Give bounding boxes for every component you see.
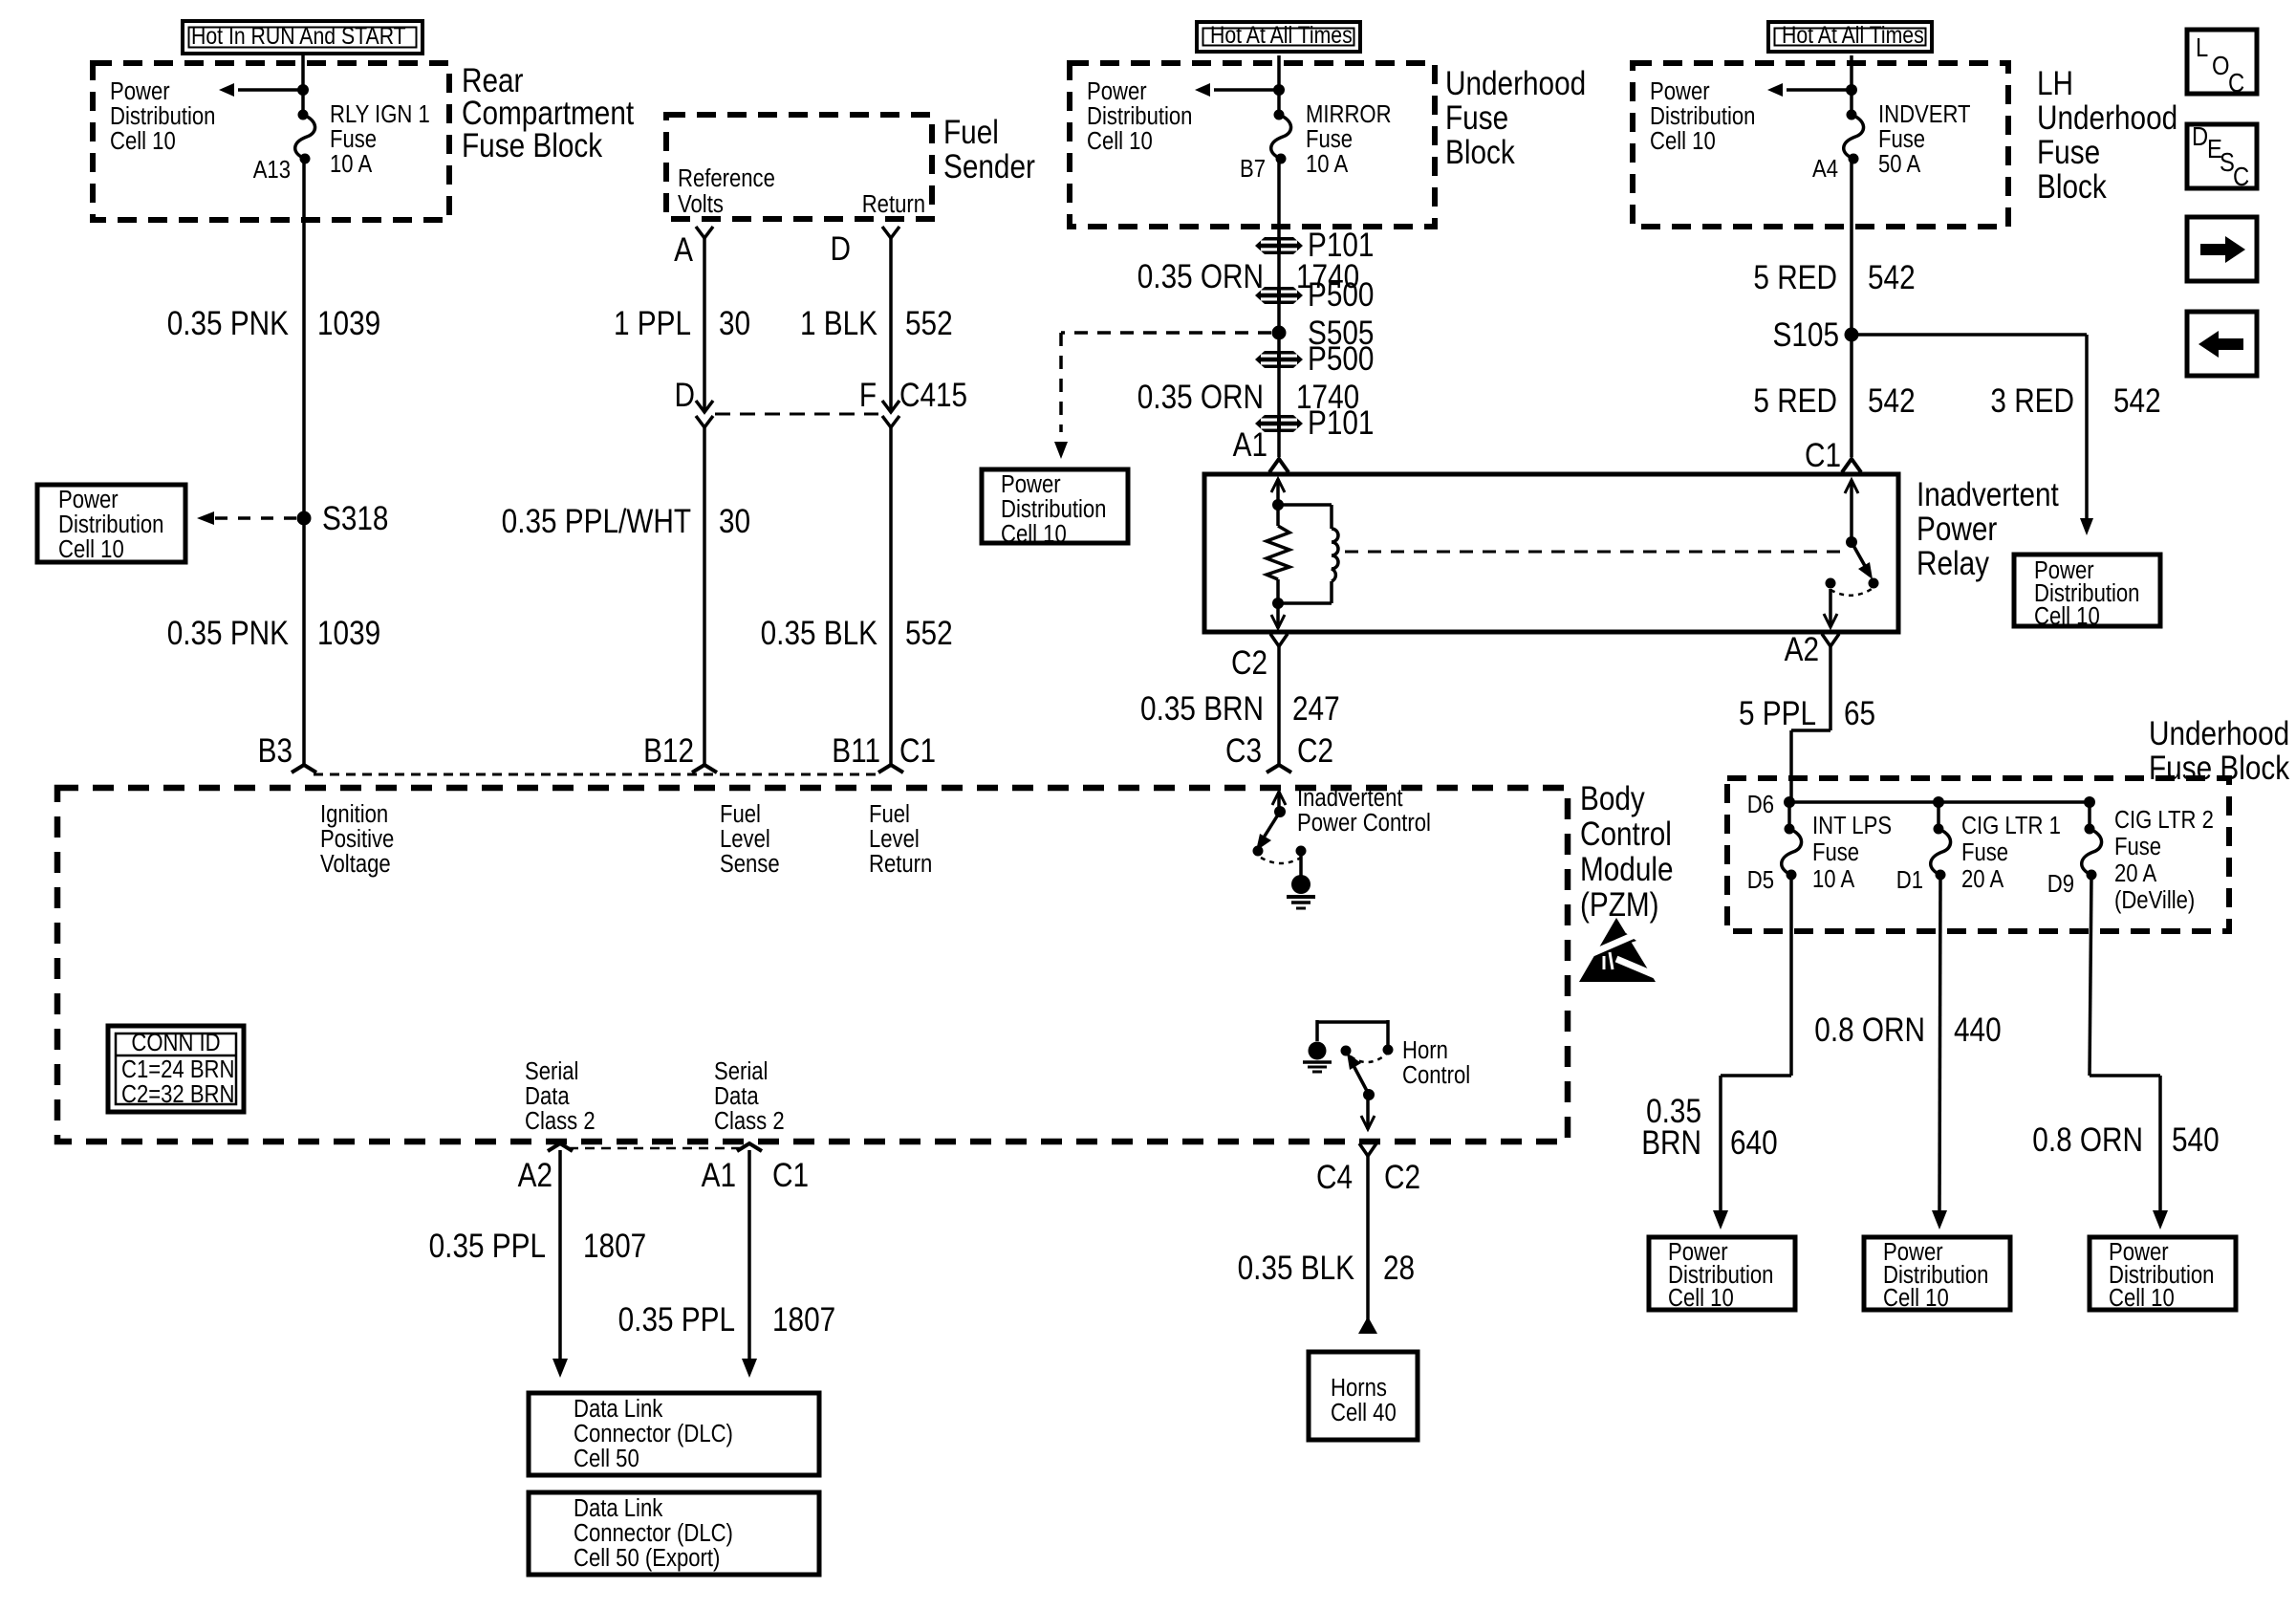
svg-text:B3: B3 — [258, 732, 292, 770]
header box Hot At All Times (underhood) — [1197, 22, 1360, 52]
svg-text:Cell 10: Cell 10 — [1650, 127, 1716, 155]
svg-text:C4: C4 — [1316, 1159, 1353, 1196]
inadvertent power control switch pivot node — [1274, 806, 1286, 817]
relay switch common up arrow — [1845, 480, 1858, 493]
svg-text:Power: Power — [1001, 470, 1061, 498]
svg-text:A: A — [674, 231, 693, 269]
wire 0.35 PPL 1807 (A2 to DLC) — [558, 1150, 562, 1360]
svg-text:Cell 40: Cell 40 — [1331, 1399, 1397, 1426]
svg-text:10 A: 10 A — [330, 150, 373, 178]
wire 0.35 PNK 1039 (A13 to B3) — [302, 159, 306, 766]
svg-text:Control: Control — [1580, 816, 1672, 853]
svg-text:O: O — [2212, 50, 2230, 80]
right arrow icon box — [2187, 217, 2257, 281]
svg-text:Power: Power — [110, 77, 170, 105]
svg-text:D5: D5 — [1747, 866, 1774, 894]
svg-text:P101: P101 — [1308, 404, 1374, 442]
svg-text:50 A: 50 A — [1878, 150, 1921, 178]
horn switch dashed arc — [1351, 1055, 1386, 1062]
svg-text:Sender: Sender — [943, 148, 1035, 185]
svg-text:Body: Body — [1580, 780, 1645, 817]
fuse INT LPS 10A — [1787, 802, 1791, 829]
svg-text:0.35 PPL: 0.35 PPL — [618, 1301, 735, 1338]
ground (horn control) — [1309, 1042, 1327, 1060]
svg-text:Cell 10: Cell 10 — [1087, 127, 1153, 155]
svg-text:Fuel: Fuel — [869, 800, 910, 828]
svg-text:Hot At All Times: Hot At All Times — [1782, 21, 1924, 48]
svg-text:C: C — [2233, 161, 2249, 191]
svg-text:0.35 BRN: 0.35 BRN — [1140, 690, 1264, 728]
svg-text:B7: B7 — [1240, 155, 1266, 183]
svg-text:3 RED: 3 RED — [1990, 382, 2074, 420]
pin C2 chevron below relay — [1270, 634, 1288, 646]
svg-text:552: 552 — [905, 305, 953, 342]
svg-text:0.35 BLK: 0.35 BLK — [761, 615, 878, 652]
svg-text:Control: Control — [1402, 1061, 1470, 1089]
switch dashed arc — [1261, 858, 1301, 863]
svg-text:Return: Return — [869, 850, 932, 878]
svg-text:Return: Return — [862, 190, 925, 218]
svg-text:P500: P500 — [1308, 276, 1374, 314]
dashed branch from S505 to Power Distribution — [1061, 331, 1271, 335]
svg-text:20 A: 20 A — [2114, 859, 2157, 887]
wire from Hot In RUN And START into fuse block — [301, 55, 305, 115]
svg-text:Power: Power — [1087, 77, 1147, 105]
svg-text:INT LPS: INT LPS — [1812, 812, 1892, 839]
junction node above MIRROR fuse — [1273, 84, 1285, 96]
thin dashed connector line A2-A1 — [569, 1147, 741, 1150]
svg-text:28: 28 — [1383, 1250, 1415, 1287]
CONN ID table box — [108, 1026, 244, 1112]
svg-text:BRN: BRN — [1641, 1124, 1701, 1162]
svg-text:Horns: Horns — [1331, 1374, 1387, 1402]
fuse INDVERT 50A — [1847, 110, 1857, 120]
svg-text:1807: 1807 — [583, 1228, 646, 1265]
svg-text:Hot At All Times: Hot At All Times — [1210, 21, 1353, 48]
wire 5 RED 542 (S105 to C1) — [1850, 335, 1853, 457]
svg-text:Class 2: Class 2 — [525, 1107, 596, 1135]
svg-text:640: 640 — [1730, 1124, 1778, 1162]
svg-text:Block: Block — [1445, 134, 1515, 171]
relay resistor — [1276, 505, 1280, 526]
svg-text:5 PPL: 5 PPL — [1739, 695, 1816, 732]
svg-text:Underhood: Underhood — [1445, 65, 1586, 102]
svg-text:D6: D6 — [1747, 791, 1774, 818]
wire 0.8 ORN 440 (D1 down) — [1939, 875, 1940, 1212]
dashed arrow from S318 to Power Distribution box — [214, 516, 296, 520]
svg-text:F: F — [859, 377, 877, 414]
arrow to Power Distribution (left) — [238, 88, 303, 92]
svg-text:D: D — [675, 377, 695, 414]
svg-text:0.35 PPL/WHT: 0.35 PPL/WHT — [502, 503, 691, 540]
solid box Data Link Connector (DLC) Cell 50 (Export) — [529, 1492, 819, 1575]
connector A1/C1 chevron (serial data) — [737, 1143, 762, 1151]
svg-text:Horn: Horn — [1402, 1036, 1448, 1064]
svg-text:C415: C415 — [899, 377, 967, 414]
svg-text:Data Link: Data Link — [574, 1494, 663, 1522]
svg-text:Reference: Reference — [678, 164, 775, 192]
wire 0.35 BRN 247 (C2 to C3) — [1277, 646, 1281, 765]
svg-text:Serial: Serial — [714, 1057, 768, 1085]
ground (inadvertent power control) — [1299, 851, 1303, 876]
svg-text:Fuse: Fuse — [1445, 99, 1508, 137]
svg-text:Voltage: Voltage — [320, 850, 391, 878]
fuse CIG LTR 1 20A — [1937, 802, 1940, 829]
wire 5 RED 542 (A4 to S105) — [1850, 159, 1853, 335]
solid box Power Distribution Cell 10 (right) — [2014, 555, 2160, 626]
relay coil-side down arrow — [1271, 615, 1285, 628]
node at CIG LTR 2 fuse top — [2084, 796, 2095, 808]
svg-text:C2: C2 — [1297, 732, 1333, 770]
svg-text:D: D — [2192, 120, 2208, 151]
svg-text:Underhood: Underhood — [2037, 99, 2177, 137]
svg-text:D: D — [831, 230, 851, 268]
svg-text:Cell 10: Cell 10 — [1668, 1284, 1734, 1312]
fuel sender dashed box — [666, 115, 932, 219]
svg-text:P500: P500 — [1308, 340, 1374, 378]
svg-text:Serial: Serial — [525, 1057, 578, 1085]
svg-text:Distribution: Distribution — [58, 511, 163, 538]
relay switch arm — [1852, 542, 1869, 573]
svg-text:440: 440 — [1954, 1012, 2002, 1049]
svg-text:A4: A4 — [1812, 155, 1838, 183]
connector A chevron at fuel sender — [696, 227, 713, 238]
inadvertent power control up arrow — [1272, 792, 1286, 805]
header box Hot In RUN And START — [183, 21, 422, 54]
connector A2 chevron (serial data) — [548, 1143, 573, 1151]
relay dashed actuating link — [1345, 551, 1840, 554]
svg-text:Cell 10: Cell 10 — [110, 127, 176, 155]
svg-text:552: 552 — [905, 615, 953, 652]
svg-text:D9: D9 — [2047, 870, 2074, 898]
underhood fuse block dashed box (lower) — [1727, 778, 2229, 931]
solid box Power Distribution Cell 10 (middle) — [982, 469, 1128, 543]
inline connector P500 (upper) — [1255, 287, 1303, 304]
svg-text:C1: C1 — [899, 732, 936, 770]
relay switch arm end node — [1869, 578, 1879, 589]
svg-text:LH: LH — [2037, 65, 2073, 102]
junction node above RLY IGN 1 fuse — [297, 84, 309, 96]
horn switch arm — [1350, 1058, 1367, 1091]
svg-text:Compartment: Compartment — [462, 95, 634, 132]
svg-text:Class 2: Class 2 — [714, 1107, 785, 1135]
header box Hot At All Times (LH underhood) — [1768, 22, 1932, 52]
horn output down arrow — [1361, 1116, 1375, 1129]
connector C4/C2 chevron below BCM — [1359, 1143, 1376, 1156]
svg-text:MIRROR: MIRROR — [1306, 100, 1392, 128]
svg-text:Cell 50 (Export): Cell 50 (Export) — [574, 1544, 720, 1572]
svg-text:Distribution: Distribution — [1650, 102, 1755, 130]
svg-text:Fuse: Fuse — [1812, 838, 1859, 866]
connector B11 chevron into BCM — [878, 765, 903, 772]
fuse feed bus — [1789, 800, 2090, 804]
wire from Hot At All Times into underhood fuse block — [1277, 55, 1281, 115]
svg-text:C2=32 BRN: C2=32 BRN — [121, 1080, 234, 1108]
svg-text:Module: Module — [1580, 851, 1674, 888]
svg-text:65: 65 — [1844, 695, 1875, 732]
svg-text:Fuse: Fuse — [1878, 125, 1925, 153]
DESC icon box — [2187, 124, 2257, 188]
svg-text:Fuse Block: Fuse Block — [2149, 750, 2290, 787]
svg-text:S105: S105 — [1773, 316, 1839, 354]
switch ground-side node — [1296, 846, 1307, 857]
svg-text:Power: Power — [1650, 77, 1710, 105]
svg-text:0.35 BLK: 0.35 BLK — [1238, 1250, 1355, 1287]
switch arm end node — [1253, 846, 1264, 857]
svg-text:Hot In RUN And START: Hot In RUN And START — [191, 22, 406, 49]
svg-text:A2: A2 — [518, 1157, 552, 1194]
svg-text:0.35 PPL: 0.35 PPL — [429, 1228, 546, 1265]
wire 0.35 ORN 1740 (B7 to A1) — [1277, 159, 1281, 457]
horn switch pivot node — [1363, 1089, 1375, 1100]
horn switch moving contact node — [1341, 1046, 1352, 1056]
svg-text:1 BLK: 1 BLK — [800, 305, 877, 342]
connector D chevron at fuel sender return — [882, 227, 899, 238]
wire 0.35 PPL 1807 (A1 to DLC) — [747, 1150, 751, 1360]
pin D and connector C415 male chevron — [696, 401, 713, 412]
svg-text:Sense: Sense — [720, 850, 780, 878]
svg-text:0.8 ORN: 0.8 ORN — [1814, 1012, 1925, 1049]
svg-text:247: 247 — [1292, 690, 1340, 728]
wire 1 PPL 30 — [703, 238, 706, 411]
LH underhood fuse block PD dashed box — [1633, 63, 2008, 227]
thin dashed connector line B3-B11 — [314, 773, 880, 776]
svg-text:C1: C1 — [1805, 437, 1841, 474]
svg-text:0.35 PNK: 0.35 PNK — [167, 615, 290, 652]
svg-text:30: 30 — [719, 503, 750, 540]
relay switch output node — [1826, 578, 1836, 589]
svg-text:Distribution: Distribution — [1001, 495, 1106, 523]
svg-text:Cell 10: Cell 10 — [58, 535, 124, 563]
svg-text:542: 542 — [1868, 259, 1916, 296]
svg-text:Data: Data — [714, 1082, 759, 1110]
pin F and connector C415 male chevron (return) — [882, 401, 899, 412]
svg-text:A1: A1 — [1233, 426, 1267, 464]
svg-text:30: 30 — [719, 305, 750, 342]
arrow to Power Distribution (LH underhood) — [1787, 88, 1852, 92]
svg-text:0.8 ORN: 0.8 ORN — [2032, 1121, 2143, 1159]
wire 3 RED 542 branch — [1852, 333, 2087, 337]
svg-text:20 A: 20 A — [1961, 865, 2004, 893]
connector C415 female chevron (fuel level sense) — [696, 416, 713, 427]
left arrow icon box — [2187, 312, 2257, 376]
relay switch pivot node — [1846, 536, 1857, 548]
svg-text:Inadvertent: Inadvertent — [1297, 784, 1403, 812]
node at CIG LTR 1 fuse top — [1933, 796, 1944, 808]
svg-text:Power Control: Power Control — [1297, 809, 1431, 837]
svg-text:D1: D1 — [1896, 866, 1923, 894]
svg-text:1 PPL: 1 PPL — [614, 305, 691, 342]
wire 0.35 BLK 28 (C4 to horns) — [1366, 1156, 1370, 1333]
svg-text:(DeVille): (DeVille) — [2114, 886, 2195, 914]
svg-text:Fuse: Fuse — [2114, 833, 2161, 860]
svg-text:C2: C2 — [1384, 1159, 1420, 1196]
svg-text:0.35 ORN: 0.35 ORN — [1137, 258, 1264, 295]
inline connector P500 (lower) — [1255, 351, 1303, 368]
svg-text:542: 542 — [2113, 382, 2161, 420]
svg-text:1807: 1807 — [772, 1301, 835, 1338]
svg-text:Ignition: Ignition — [320, 800, 388, 828]
horn control bracket wire — [1317, 1020, 1388, 1024]
LOC icon box — [2187, 30, 2257, 94]
svg-text:C3: C3 — [1225, 732, 1262, 770]
svg-text:10 A: 10 A — [1306, 150, 1349, 178]
body control module dashed box — [57, 788, 1568, 1142]
svg-text:L: L — [2196, 32, 2208, 62]
svg-text:Connector (DLC): Connector (DLC) — [574, 1420, 733, 1447]
connector B3 chevron into BCM — [292, 765, 316, 772]
svg-text:Cell 10: Cell 10 — [2034, 602, 2100, 630]
svg-text:Block: Block — [2037, 168, 2107, 206]
fuse RLY IGN 1 10A — [298, 110, 309, 120]
inadvertent power control switch arm — [1259, 812, 1280, 845]
svg-text:Relay: Relay — [1917, 545, 1990, 582]
svg-text:A1: A1 — [702, 1157, 736, 1194]
svg-text:Volts: Volts — [678, 190, 724, 218]
svg-text:B11: B11 — [832, 732, 880, 770]
solid box Power Distribution Cell 10 (640) — [1649, 1237, 1795, 1310]
svg-text:A2: A2 — [1785, 631, 1819, 668]
svg-text:C2: C2 — [1231, 644, 1267, 682]
svg-text:Fuel: Fuel — [720, 800, 761, 828]
relay box Inadvertent Power Relay — [1204, 474, 1898, 632]
svg-text:Distribution: Distribution — [110, 102, 215, 130]
pin A2 chevron below relay — [1822, 634, 1839, 646]
svg-text:Fuse: Fuse — [330, 125, 377, 153]
svg-text:540: 540 — [2172, 1121, 2220, 1159]
svg-text:Data: Data — [525, 1082, 570, 1110]
svg-text:Fuse: Fuse — [1306, 125, 1353, 153]
svg-text:5 RED: 5 RED — [1753, 382, 1837, 420]
svg-text:(PZM): (PZM) — [1580, 886, 1659, 924]
solid box Power Distribution Cell 10 (left) — [37, 485, 185, 562]
splice node S505 — [1272, 326, 1287, 340]
svg-text:1039: 1039 — [317, 615, 380, 652]
wire from Hot At All Times into LH underhood fuse block — [1850, 55, 1853, 115]
solid box Power Distribution Cell 10 (540) — [2090, 1237, 2236, 1310]
inline connector P101 (lower) — [1255, 415, 1303, 432]
svg-text:Level: Level — [720, 825, 770, 853]
fuse MIRROR 10A — [1274, 110, 1285, 120]
relay switch dashed arc — [1830, 589, 1872, 596]
svg-text:542: 542 — [1868, 382, 1916, 420]
svg-text:CIG LTR 2: CIG LTR 2 — [2114, 806, 2214, 834]
svg-text:INDVERT: INDVERT — [1878, 100, 1971, 128]
horn switch fixed contact node — [1383, 1045, 1394, 1055]
rear compartment fuse block dashed box — [93, 63, 449, 220]
inline connector P101 (upper) — [1255, 237, 1303, 254]
svg-text:Fuse: Fuse — [2037, 134, 2100, 171]
connector C415 dashed line — [715, 413, 878, 416]
wire 0.8 ORN 540 (D9 down) — [2090, 875, 2091, 1076]
svg-text:Positive: Positive — [320, 825, 394, 853]
svg-text:Data Link: Data Link — [574, 1395, 663, 1423]
junction node above INDVERT fuse — [1846, 84, 1857, 96]
svg-text:Cell 50: Cell 50 — [574, 1445, 639, 1472]
svg-text:A13: A13 — [253, 156, 291, 184]
svg-text:Fuse: Fuse — [1961, 838, 2008, 866]
relay node bottom of coil branch — [1272, 598, 1284, 609]
svg-text:Connector (DLC): Connector (DLC) — [574, 1519, 733, 1547]
svg-text:Underhood: Underhood — [2149, 715, 2289, 752]
svg-text:Power: Power — [58, 486, 119, 513]
svg-text:0.35 ORN: 0.35 ORN — [1137, 379, 1264, 416]
svg-text:Level: Level — [869, 825, 920, 853]
svg-text:Fuse Block: Fuse Block — [462, 127, 603, 164]
relay output down arrow — [1824, 614, 1837, 627]
splice node S105 — [1845, 328, 1859, 342]
svg-text:Fuel: Fuel — [943, 114, 999, 151]
svg-text:C: C — [2228, 67, 2244, 98]
svg-text:B12: B12 — [643, 732, 694, 770]
svg-text:Inadvertent: Inadvertent — [1917, 476, 2059, 513]
ESD sensitivity symbol — [1579, 918, 1656, 982]
svg-text:Cell 10: Cell 10 — [1001, 520, 1067, 548]
relay coil-side up arrow — [1271, 479, 1285, 492]
svg-text:Rear: Rear — [462, 62, 524, 99]
wire 0.35 BRN 640 (D5 down) — [1789, 875, 1793, 1076]
wire 0.35 BLK 552 — [889, 427, 893, 765]
wire 5 PPL 65 (A2 to D6) — [1829, 646, 1832, 730]
solid box Horns Cell 40 — [1309, 1352, 1418, 1440]
svg-text:0.35 PNK: 0.35 PNK — [167, 305, 290, 342]
wire 1 BLK 552 — [889, 238, 893, 411]
svg-text:C1=24 BRN: C1=24 BRN — [121, 1055, 234, 1083]
svg-text:C1: C1 — [772, 1157, 809, 1194]
horns feed triangle terminal — [1358, 1316, 1377, 1334]
svg-text:S318: S318 — [322, 500, 388, 537]
solid box Power Distribution Cell 10 (440) — [1864, 1237, 2010, 1310]
connector C415 female chevron (return) — [882, 416, 899, 427]
svg-text:RLY IGN 1: RLY IGN 1 — [330, 100, 430, 128]
connector B12 chevron into BCM — [692, 765, 717, 772]
solid box Data Link Connector (DLC) Cell 50 — [529, 1393, 819, 1475]
node D6 — [1784, 796, 1795, 808]
relay node top of coil branch — [1272, 499, 1284, 511]
relay coil — [1278, 503, 1332, 507]
svg-text:Cell 10: Cell 10 — [2109, 1284, 2175, 1312]
svg-text:10 A: 10 A — [1812, 865, 1855, 893]
connector C3/C2 chevron into BCM — [1267, 765, 1291, 772]
arrow to Power Distribution (underhood) — [1214, 88, 1279, 92]
underhood fuse block PD dashed box — [1070, 63, 1435, 227]
svg-text:1039: 1039 — [317, 305, 380, 342]
svg-text:CIG LTR 1: CIG LTR 1 — [1961, 812, 2061, 839]
wire 0.35 PPL/WHT 30 — [703, 427, 706, 765]
svg-text:CONN ID: CONN ID — [131, 1029, 220, 1056]
svg-text:5 RED: 5 RED — [1753, 259, 1837, 296]
fuse CIG LTR 2 20A — [2088, 802, 2091, 829]
svg-text:Distribution: Distribution — [1087, 102, 1192, 130]
splice node S318 — [297, 511, 312, 526]
svg-text:Cell 10: Cell 10 — [1883, 1284, 1949, 1312]
svg-text:Power: Power — [1917, 511, 1997, 548]
